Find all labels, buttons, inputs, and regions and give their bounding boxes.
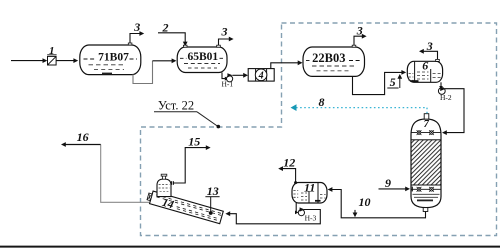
svg-text:6: 6 <box>422 58 428 72</box>
wire pump Н-3 to exchanger 13 <box>230 210 320 224</box>
wire stream 3 from 22В03 <box>354 36 363 45</box>
drum right flange <box>171 181 173 185</box>
reflux drum on item 13 <box>157 179 171 197</box>
svg-text:3: 3 <box>221 25 228 39</box>
svg-text:3: 3 <box>133 20 140 34</box>
exchanger left flange <box>147 193 152 201</box>
wire outlet stream 16 <box>101 145 150 203</box>
svg-text:Уст. 22: Уст. 22 <box>158 99 194 113</box>
wire outlet stream 10 <box>354 210 356 214</box>
wire vessel 11 outlet to pump Н-3 <box>295 203 297 212</box>
wire pump Н-2 to column 7 <box>445 89 464 133</box>
filter item 4 <box>248 69 274 82</box>
unit boundary dashed box Уст.22 <box>141 23 497 236</box>
svg-text:9: 9 <box>385 176 391 190</box>
svg-text:11: 11 <box>304 180 315 194</box>
vessel 22В03 <box>303 47 365 76</box>
wire outlet stream 15 <box>174 148 207 183</box>
wire inlet stream 5 <box>387 87 398 89</box>
svg-text:3: 3 <box>356 24 363 38</box>
svg-text:10: 10 <box>359 195 371 209</box>
svg-text:Н-1: Н-1 <box>221 80 233 89</box>
condenser/cooler item 13 (inclined) <box>146 190 224 225</box>
wire 65В01 outlet to pump Н-1 <box>222 73 226 79</box>
liquid level lines <box>413 193 440 195</box>
svg-text:65В01: 65В01 <box>187 51 218 63</box>
top distributor <box>411 132 441 134</box>
column bottom nozzle <box>423 208 428 212</box>
svg-text:71В07: 71В07 <box>98 52 129 64</box>
packing (hatched) <box>411 140 441 185</box>
wire column 7 bottoms to vessel 11 <box>331 190 426 218</box>
nozzle / wire stream 3 from 71В07 <box>128 43 132 45</box>
pump Н-1 <box>227 76 233 82</box>
wire stream 8 dotted recycle <box>296 107 427 109</box>
wire stream 3 from 65В01 <box>219 39 230 45</box>
pump Н-3 <box>298 210 304 216</box>
wire 71В07 outlet to 65В01 <box>133 61 153 84</box>
svg-text:8: 8 <box>319 95 325 109</box>
svg-text:3: 3 <box>426 39 433 53</box>
wire item1 to 71В07 <box>56 60 74 62</box>
figure bottom border line <box>0 246 500 248</box>
svg-text:7: 7 <box>424 119 430 130</box>
column top nozzle <box>424 114 429 119</box>
wire vessel 6 outlet to pump Н-2 <box>440 82 442 87</box>
wire stream 3 from vessel 6 <box>423 51 438 59</box>
wire 22В03 outlet to vessel 6 <box>353 72 403 94</box>
bottom distributor <box>411 188 441 190</box>
wire inlet stream 9 <box>379 188 407 190</box>
svg-text:15: 15 <box>188 134 200 148</box>
pump Н-2 <box>438 88 445 95</box>
svg-text:5: 5 <box>390 75 396 89</box>
svg-text:13: 13 <box>207 184 219 198</box>
wire pump Н-1 to item 4 <box>232 74 244 76</box>
vessel 6 (separator) <box>407 61 442 82</box>
vessel 11 (separator) <box>292 183 327 204</box>
wire inlet stream 1 <box>11 60 44 62</box>
svg-text:4: 4 <box>258 71 264 82</box>
vessel 71В07 <box>80 45 141 75</box>
wire outlet stream 12 <box>282 169 296 183</box>
vessel 65В01 <box>177 47 227 73</box>
wire inlet stream 2 <box>158 33 185 43</box>
svg-text:2: 2 <box>162 21 169 35</box>
mixer/injector item 1 (square with diagonal) <box>48 56 57 65</box>
wire item 4 to 22В03 <box>271 63 299 69</box>
svg-text:Н-2: Н-2 <box>440 93 452 102</box>
svg-text:Н-3: Н-3 <box>305 214 317 223</box>
svg-text:16: 16 <box>77 130 89 144</box>
column 7 (packed absorber) <box>411 119 441 208</box>
svg-text:12: 12 <box>283 155 295 169</box>
svg-text:22В03: 22В03 <box>312 51 345 65</box>
